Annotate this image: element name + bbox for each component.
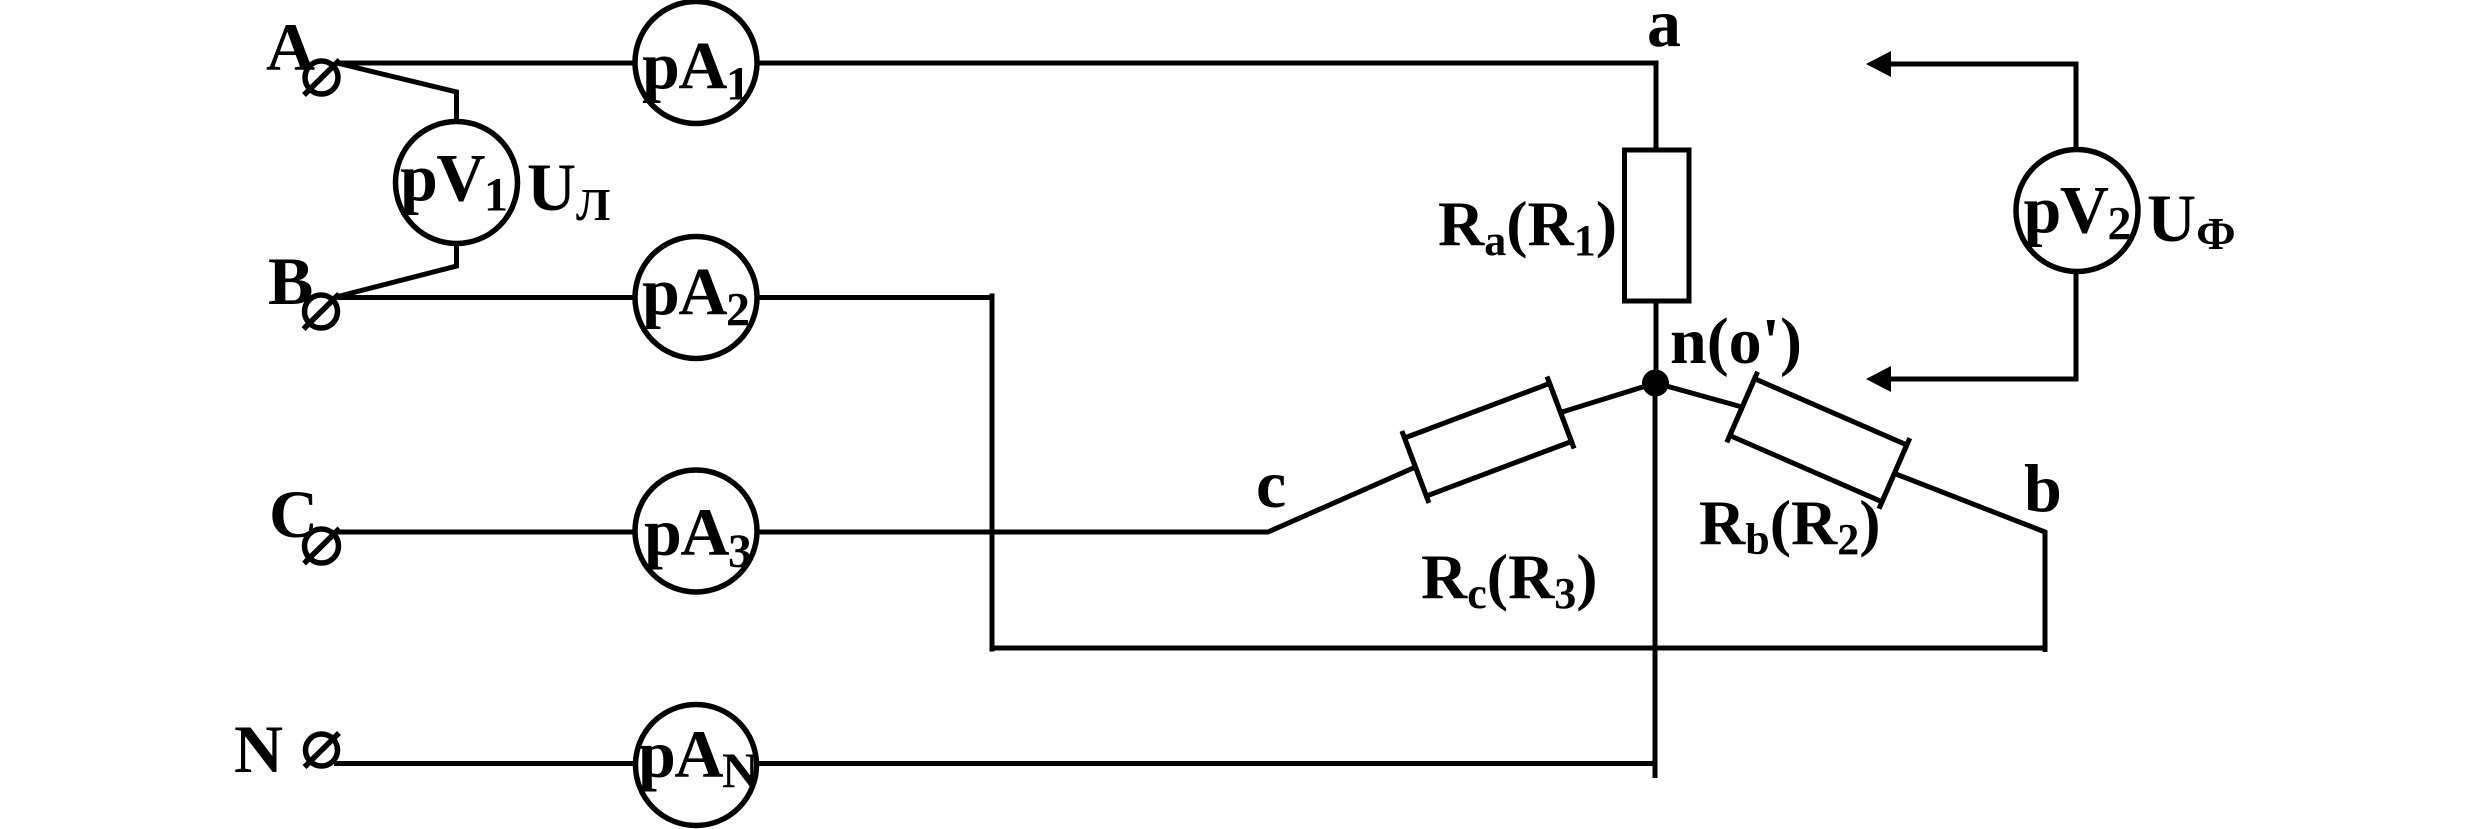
svg-text:a: a (1647, 0, 1681, 61)
svg-text:c: c (1256, 446, 1286, 522)
svg-text:Ra(R1): Ra(R1) (1438, 188, 1617, 265)
svg-text:N: N (234, 711, 283, 787)
svg-text:UФ: UФ (2147, 180, 2236, 259)
svg-text:UЛ: UЛ (527, 149, 610, 230)
svg-text:B: B (268, 243, 313, 319)
svg-text:C: C (269, 476, 318, 552)
svg-text:n(o'): n(o') (1670, 305, 1802, 378)
svg-text:Rb(R2): Rb(R2) (1699, 487, 1881, 564)
svg-text:b: b (2024, 450, 2062, 526)
svg-text:A: A (266, 9, 315, 85)
svg-text:Rc(R3): Rc(R3) (1421, 541, 1598, 618)
